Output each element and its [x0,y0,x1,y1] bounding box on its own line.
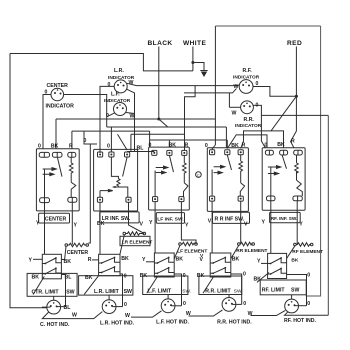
wire lr B2 down-diagonal [129,202,145,233]
svg-text:C. HOT IND.: C. HOT IND. [40,322,70,328]
wire bus B4 rr-ind to right edge [253,105,328,115]
limit box LR [79,276,133,295]
wire rr B2 down [240,201,242,244]
wire lr contact bar [113,187,128,197]
nameplate rf [270,212,301,222]
wire rr-hot right [232,303,241,305]
wire rf-hot stem [291,295,293,300]
resistor lr-box [111,157,120,187]
wire ctr-lt stub [33,258,42,260]
wire rf B2 down [296,201,298,245]
wire c-hot right [42,306,66,309]
terminal rr T1 [210,150,215,155]
wire rr-hot stem [228,295,230,298]
hot indicator LF lamp [161,299,175,313]
svg-text:V: V [244,221,248,227]
wire rf-rb down [287,275,307,306]
limit box CTR [27,273,77,296]
element LR box [120,236,150,245]
switch CENTER box [36,149,79,211]
svg-text:0: 0 [243,272,246,278]
terminal rf T3 [294,150,303,155]
wire lf-rb down [174,274,181,306]
wire lf-lt stub [146,261,154,263]
limit contact box CTR [42,254,61,278]
wire v at 130.9 [130,134,132,151]
wire ground tap [193,63,204,71]
svg-text:C: C [197,174,200,178]
svg-text:BLACK: BLACK [148,40,173,47]
switch rf arrows [268,166,281,175]
svg-text:W: W [232,111,237,117]
svg-text:Y: Y [262,219,266,225]
hot indicator LR lamp [102,300,116,314]
nameplate center [39,213,70,223]
contact rr top [210,258,231,264]
element LR squiggle [123,232,126,235]
wire bus B5 red feed [241,131,284,149]
wire bus y134 [131,133,185,135]
wire c-hot stem [53,296,55,300]
hot indicator RF lamp [285,299,299,313]
hot indicator RR lamp [222,298,236,312]
svg-text:LR INF. SW.: LR INF. SW. [102,216,131,222]
resistor rf-box [295,155,299,173]
svg-text:W: W [125,313,130,319]
svg-text:SW.: SW. [182,289,191,295]
contact ctr bottom [42,268,61,274]
wire gap vertical to center element [88,144,90,243]
terminal center T1 [39,152,49,157]
svg-text:BK: BK [97,221,105,227]
switch RR box [207,148,248,212]
wire lf elem to contact [174,245,180,258]
diagonal ctr [33,276,44,294]
wire lr-ind right long W bus [127,83,239,85]
terminal rf B1 [267,196,276,201]
svg-text:0: 0 [243,301,246,307]
svg-text:BK: BK [51,144,59,150]
terminal lf B1 [153,197,158,202]
svg-text:0: 0 [183,301,186,307]
svg-text:BK: BK [231,143,239,149]
switch rf blade [282,155,286,168]
element LF squiggle [179,243,182,246]
wire lr limit R stub [92,259,99,261]
svg-text:0: 0 [307,272,310,278]
wire lr B1 down [99,202,101,254]
terminal center T2 [52,152,62,157]
wire drop rr BK [225,127,227,148]
wire bus B3 [72,130,150,132]
contact ctr top [42,258,61,264]
svg-text:CTR. LIMIT: CTR. LIMIT [32,289,60,295]
switch lf arrows [156,166,168,174]
svg-text:RF. INF. SW.: RF. INF. SW. [271,216,298,221]
terminal rr T2 [225,150,230,155]
svg-text:BK: BK [232,257,240,263]
svg-text:0: 0 [149,142,152,148]
svg-text:W: W [72,313,77,319]
wire drop lf 0 [149,131,151,147]
svg-text:INDICATOR: INDICATOR [46,104,75,110]
svg-text:0: 0 [264,142,267,148]
terminal rf B2 [293,196,302,201]
svg-text:Y: Y [299,222,303,228]
svg-text:0: 0 [124,274,127,280]
svg-text:Y: Y [36,221,40,227]
svg-text:BK: BK [169,142,177,148]
svg-text:0: 0 [124,302,127,308]
wire rf B1 riser [270,167,272,196]
terminal lf T3 [182,150,187,155]
wire rf elem to contact [287,246,295,259]
contact lf top [154,258,174,264]
switch rr blade [227,155,231,170]
wire lr-rb down [120,274,123,307]
svg-text:BK: BK [121,256,129,262]
wire lr-ind left [100,86,114,152]
svg-text:L.R. HOT IND.: L.R. HOT IND. [100,320,135,326]
svg-text:RF. LIMIT: RF. LIMIT [262,287,286,293]
switch rr arrows [214,165,225,174]
element RF squiggle [294,243,297,246]
nameplate rr [213,212,250,223]
wire rf-ind right [253,87,296,97]
wire bus y135 rf feed [227,135,267,149]
svg-text:Y: Y [257,258,261,264]
limit box RF [260,280,306,295]
terminal center B1 [40,198,50,203]
svg-text:INDICATOR: INDICATOR [235,123,262,129]
wire lr t3 blade [123,157,128,177]
wire rr elem to contact [231,245,239,258]
svg-text:L.F. HOT IND.: L.F. HOT IND. [156,319,189,325]
element RR squiggle [238,243,241,246]
svg-text:RF. HOT IND.: RF. HOT IND. [284,318,317,324]
svg-text:L.R.: L.R. [114,68,124,74]
contact lr bottom [99,267,120,273]
svg-text:V: V [140,221,144,227]
svg-text:BK: BK [64,259,72,265]
svg-text:R.R. HOT IND.: R.R. HOT IND. [217,319,252,325]
wire left border [10,54,47,308]
terminal center B3 [68,197,77,202]
wire b3 spur [84,131,97,144]
terminal lr T2 [109,152,114,157]
svg-text:BK: BK [277,142,285,148]
node red junction [295,95,298,98]
wire top loop box [214,26,216,145]
element CENTER squiggle [65,244,68,247]
svg-text:LF INF. SW.: LF INF. SW. [157,216,184,222]
wire center-ind left [43,95,51,149]
switch LF box [149,147,190,210]
diagonal lr [84,276,98,295]
svg-text:BK: BK [176,257,184,263]
wire rr-rb down [231,274,242,304]
svg-text:W: W [234,84,239,90]
contact rf bottom [268,269,287,275]
wire red drop [291,47,297,149]
svg-text:SW.: SW. [234,289,243,295]
svg-text:0: 0 [107,144,110,150]
wire lr elem left down [120,235,124,260]
wire center-ind right [64,95,107,128]
limit contact box RF [268,253,287,278]
svg-text:WHITE: WHITE [183,40,206,47]
terminal lr B2 [126,197,131,202]
wire drop center R [71,131,73,149]
wire rr-ind left [229,106,240,108]
wire center B3 down [71,202,73,245]
svg-text:R: R [88,257,92,263]
wire drop center BK [55,119,57,149]
wire lr-hot stem [108,295,110,300]
wire black diagonal to B2 [159,119,168,127]
limit box RR [199,276,242,295]
indicator L.F. lamp [114,103,127,116]
wire lf-hot right [171,305,181,307]
flag center-box [71,174,76,197]
node white-ground junction [191,61,194,64]
switch center blade [58,158,63,177]
contact rr bottom [210,268,231,274]
svg-text:CENTER: CENTER [45,216,67,222]
wire lr t2 feed [110,127,112,152]
limit contact box RR [210,253,231,277]
flag lf-box [184,174,189,197]
terminal rf T2 [280,150,288,155]
svg-text:R.F.: R.F. [243,68,253,74]
svg-text:R: R [185,142,189,148]
svg-text:V: V [200,257,204,263]
svg-text:RED: RED [287,40,302,47]
svg-text:Y: Y [29,257,33,263]
svg-text:V: V [208,219,212,225]
svg-text:L.F. LIMIT: L.F. LIMIT [148,289,172,295]
terminal lr T1 [98,152,103,157]
diagonal rf [257,273,269,283]
svg-text:R: R [291,139,295,145]
wire c-hot diag and W bus seg1 [42,312,102,319]
svg-text:SW: SW [124,289,132,295]
wire lf B1 down [154,202,156,253]
wire bus y140 [150,140,228,148]
wire lf B1 riser [154,171,156,197]
wire lf T3 feed [185,86,196,151]
svg-text:0: 0 [108,82,111,88]
svg-text:SW: SW [66,289,74,295]
svg-text:CENTER: CENTER [67,250,89,256]
svg-text:L.R. LIMIT: L.R. LIMIT [94,289,120,295]
wire rf B1 down [270,201,272,254]
wire bus B6 [184,88,237,93]
svg-text:W: W [248,311,253,317]
switch LR box [94,149,138,211]
contact lf bottom [154,268,174,274]
wire lr B1 riser [99,191,101,198]
svg-text:0: 0 [307,301,310,307]
switch lf blade [169,155,173,172]
switch lr blade-arrow [100,190,113,192]
wire center B1 riser [44,169,46,198]
svg-text:BK: BK [32,275,40,281]
wire center B1 down [44,203,46,255]
svg-text:INDICATOR: INDICATOR [104,98,131,104]
svg-text:R.R.: R.R. [244,117,255,123]
resistor lf-box [183,155,187,174]
indicator R.F. lamp [239,80,253,94]
svg-text:R.R. LIMIT: R.R. LIMIT [205,289,231,295]
svg-text:0: 0 [84,138,87,144]
wire rr0 to rf t1 [261,115,265,148]
wire rr t1 jog [212,145,215,150]
wire drop lf W [127,89,135,151]
terminal lf B2 [179,197,184,202]
wire lr-hot right [112,306,122,308]
diagonal rr [203,277,214,294]
switch center arrows [43,168,57,176]
svg-text:0: 0 [38,144,41,150]
contact rf top [268,258,287,264]
wire W bus seg4 [251,310,286,315]
svg-text:BL: BL [64,305,72,311]
svg-text:BL: BL [137,146,145,152]
wire rf diag W to right riser [285,312,329,315]
svg-text:R: R [69,144,73,150]
svg-text:RR ELEMENT: RR ELEMENT [236,248,267,254]
wire rr W drop [228,93,230,107]
resistor center-box [69,157,73,174]
wire white drop [192,47,194,71]
terminal center T3 [68,152,76,157]
wire lf B2 down [181,202,196,244]
indicator R.R. lamp [241,101,254,114]
wire rf-lt stub [261,262,268,264]
wire W bus seg2 [131,311,162,317]
indicator L.R. lamp [114,80,127,93]
terminal rf T1 [265,150,273,155]
node black junction [157,118,160,121]
wire lf-hot stem [167,295,169,300]
svg-text:L.F.: L.F. [111,92,120,98]
wire bus B1 black [56,118,215,120]
svg-text:0: 0 [256,103,259,109]
thermostat C circle [196,172,202,178]
wire rr B1 down [211,201,213,253]
svg-text:0: 0 [205,143,208,149]
ground [200,70,207,72]
wire rr B1 riser [211,170,213,197]
terminal lr B1 [97,197,102,202]
limit contact box LR [99,254,120,275]
wire ctr-rb down [61,275,65,307]
resistor rr-box [239,155,243,173]
flag rr-box [240,173,244,196]
wire black drop [158,47,160,120]
wire center elem to contact [61,246,66,259]
wire lf-ind right [126,113,135,114]
nameplate lr [100,212,139,223]
svg-text:INDICATOR: INDICATOR [233,75,260,81]
terminal lf T2 [167,150,172,155]
switch RF box [262,148,305,210]
wire lf-ind left [107,113,115,117]
limit contact box LF [154,253,174,277]
svg-text:CENTER: CENTER [47,83,69,89]
svg-text:W: W [130,114,135,120]
terminal rr B1 [210,196,215,201]
wire W bus seg3 [189,310,223,316]
wire lr t3 diagonal feed [118,134,128,150]
wire bl link [127,151,154,153]
svg-text:RF ELEMENT: RF ELEMENT [292,249,323,255]
svg-text:Y: Y [185,222,189,228]
nameplate lf [156,213,184,224]
wire bus B2 [107,126,227,128]
terminal rr B2 [238,196,243,201]
limit box LF [143,276,188,295]
terminal lr T3 [125,152,130,157]
wire rf-hot right [295,305,307,307]
svg-text:R: R [242,142,246,148]
terminal lf T1 [152,150,157,155]
wire white neutral to left border [10,54,193,71]
indicator CENTER lamp [51,88,64,101]
svg-text:Y: Y [74,223,78,229]
wire red diagonal [271,96,296,131]
svg-text:LR ELEMENT: LR ELEMENT [122,240,153,246]
terminal rr T3 [238,150,243,155]
svg-text:Y: Y [149,220,153,226]
flag rf-box [297,172,303,197]
contact lr top [99,258,120,264]
diagonal lf [147,277,158,294]
svg-text:BK: BK [291,258,298,264]
svg-text:Y: Y [142,257,146,263]
svg-text:SW: SW [291,287,299,293]
hot indicator C lamp [47,300,61,314]
